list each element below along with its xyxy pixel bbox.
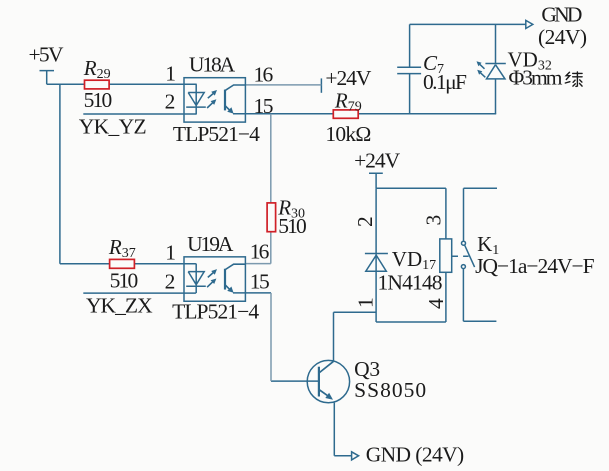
svg-text:U19A: U19A [187, 232, 234, 256]
svg-text:+24V: +24V [354, 148, 400, 172]
svg-text:+5V: +5V [29, 43, 64, 67]
svg-text:510: 510 [84, 88, 113, 112]
svg-text:2: 2 [165, 90, 176, 114]
svg-text:510: 510 [110, 268, 139, 292]
svg-text:SS8050: SS8050 [354, 378, 426, 402]
svg-text:10kΩ: 10kΩ [325, 122, 371, 146]
svg-text:+24V: +24V [325, 66, 371, 90]
svg-text:JQ−1a−24V−F: JQ−1a−24V−F [475, 254, 595, 278]
svg-text:TLP521−4: TLP521−4 [172, 300, 259, 324]
svg-text:1: 1 [354, 297, 378, 308]
svg-text:GND: GND [541, 3, 582, 27]
svg-text:(24V): (24V) [538, 25, 587, 49]
svg-text:15: 15 [250, 270, 270, 294]
svg-text:U18A: U18A [189, 52, 236, 76]
svg-text:0.1μF: 0.1μF [423, 70, 467, 94]
svg-text:15: 15 [254, 94, 274, 118]
svg-text:2: 2 [165, 269, 176, 293]
svg-text:1: 1 [165, 61, 176, 85]
svg-text:4: 4 [424, 298, 448, 309]
svg-text:1N4148: 1N4148 [378, 270, 443, 294]
svg-text:GND (24V): GND (24V) [366, 443, 465, 467]
svg-text:16: 16 [250, 239, 270, 263]
svg-text:16: 16 [254, 63, 274, 87]
svg-text:1: 1 [165, 241, 176, 265]
svg-text:2: 2 [353, 216, 377, 227]
svg-text:TLP521−4: TLP521−4 [173, 122, 260, 146]
svg-text:YK_YZ: YK_YZ [79, 115, 147, 139]
svg-text:Φ3mm: Φ3mm [509, 66, 563, 90]
svg-text:3: 3 [422, 215, 446, 226]
svg-text:510: 510 [278, 214, 307, 238]
svg-text:YK_ZX: YK_ZX [86, 293, 153, 317]
